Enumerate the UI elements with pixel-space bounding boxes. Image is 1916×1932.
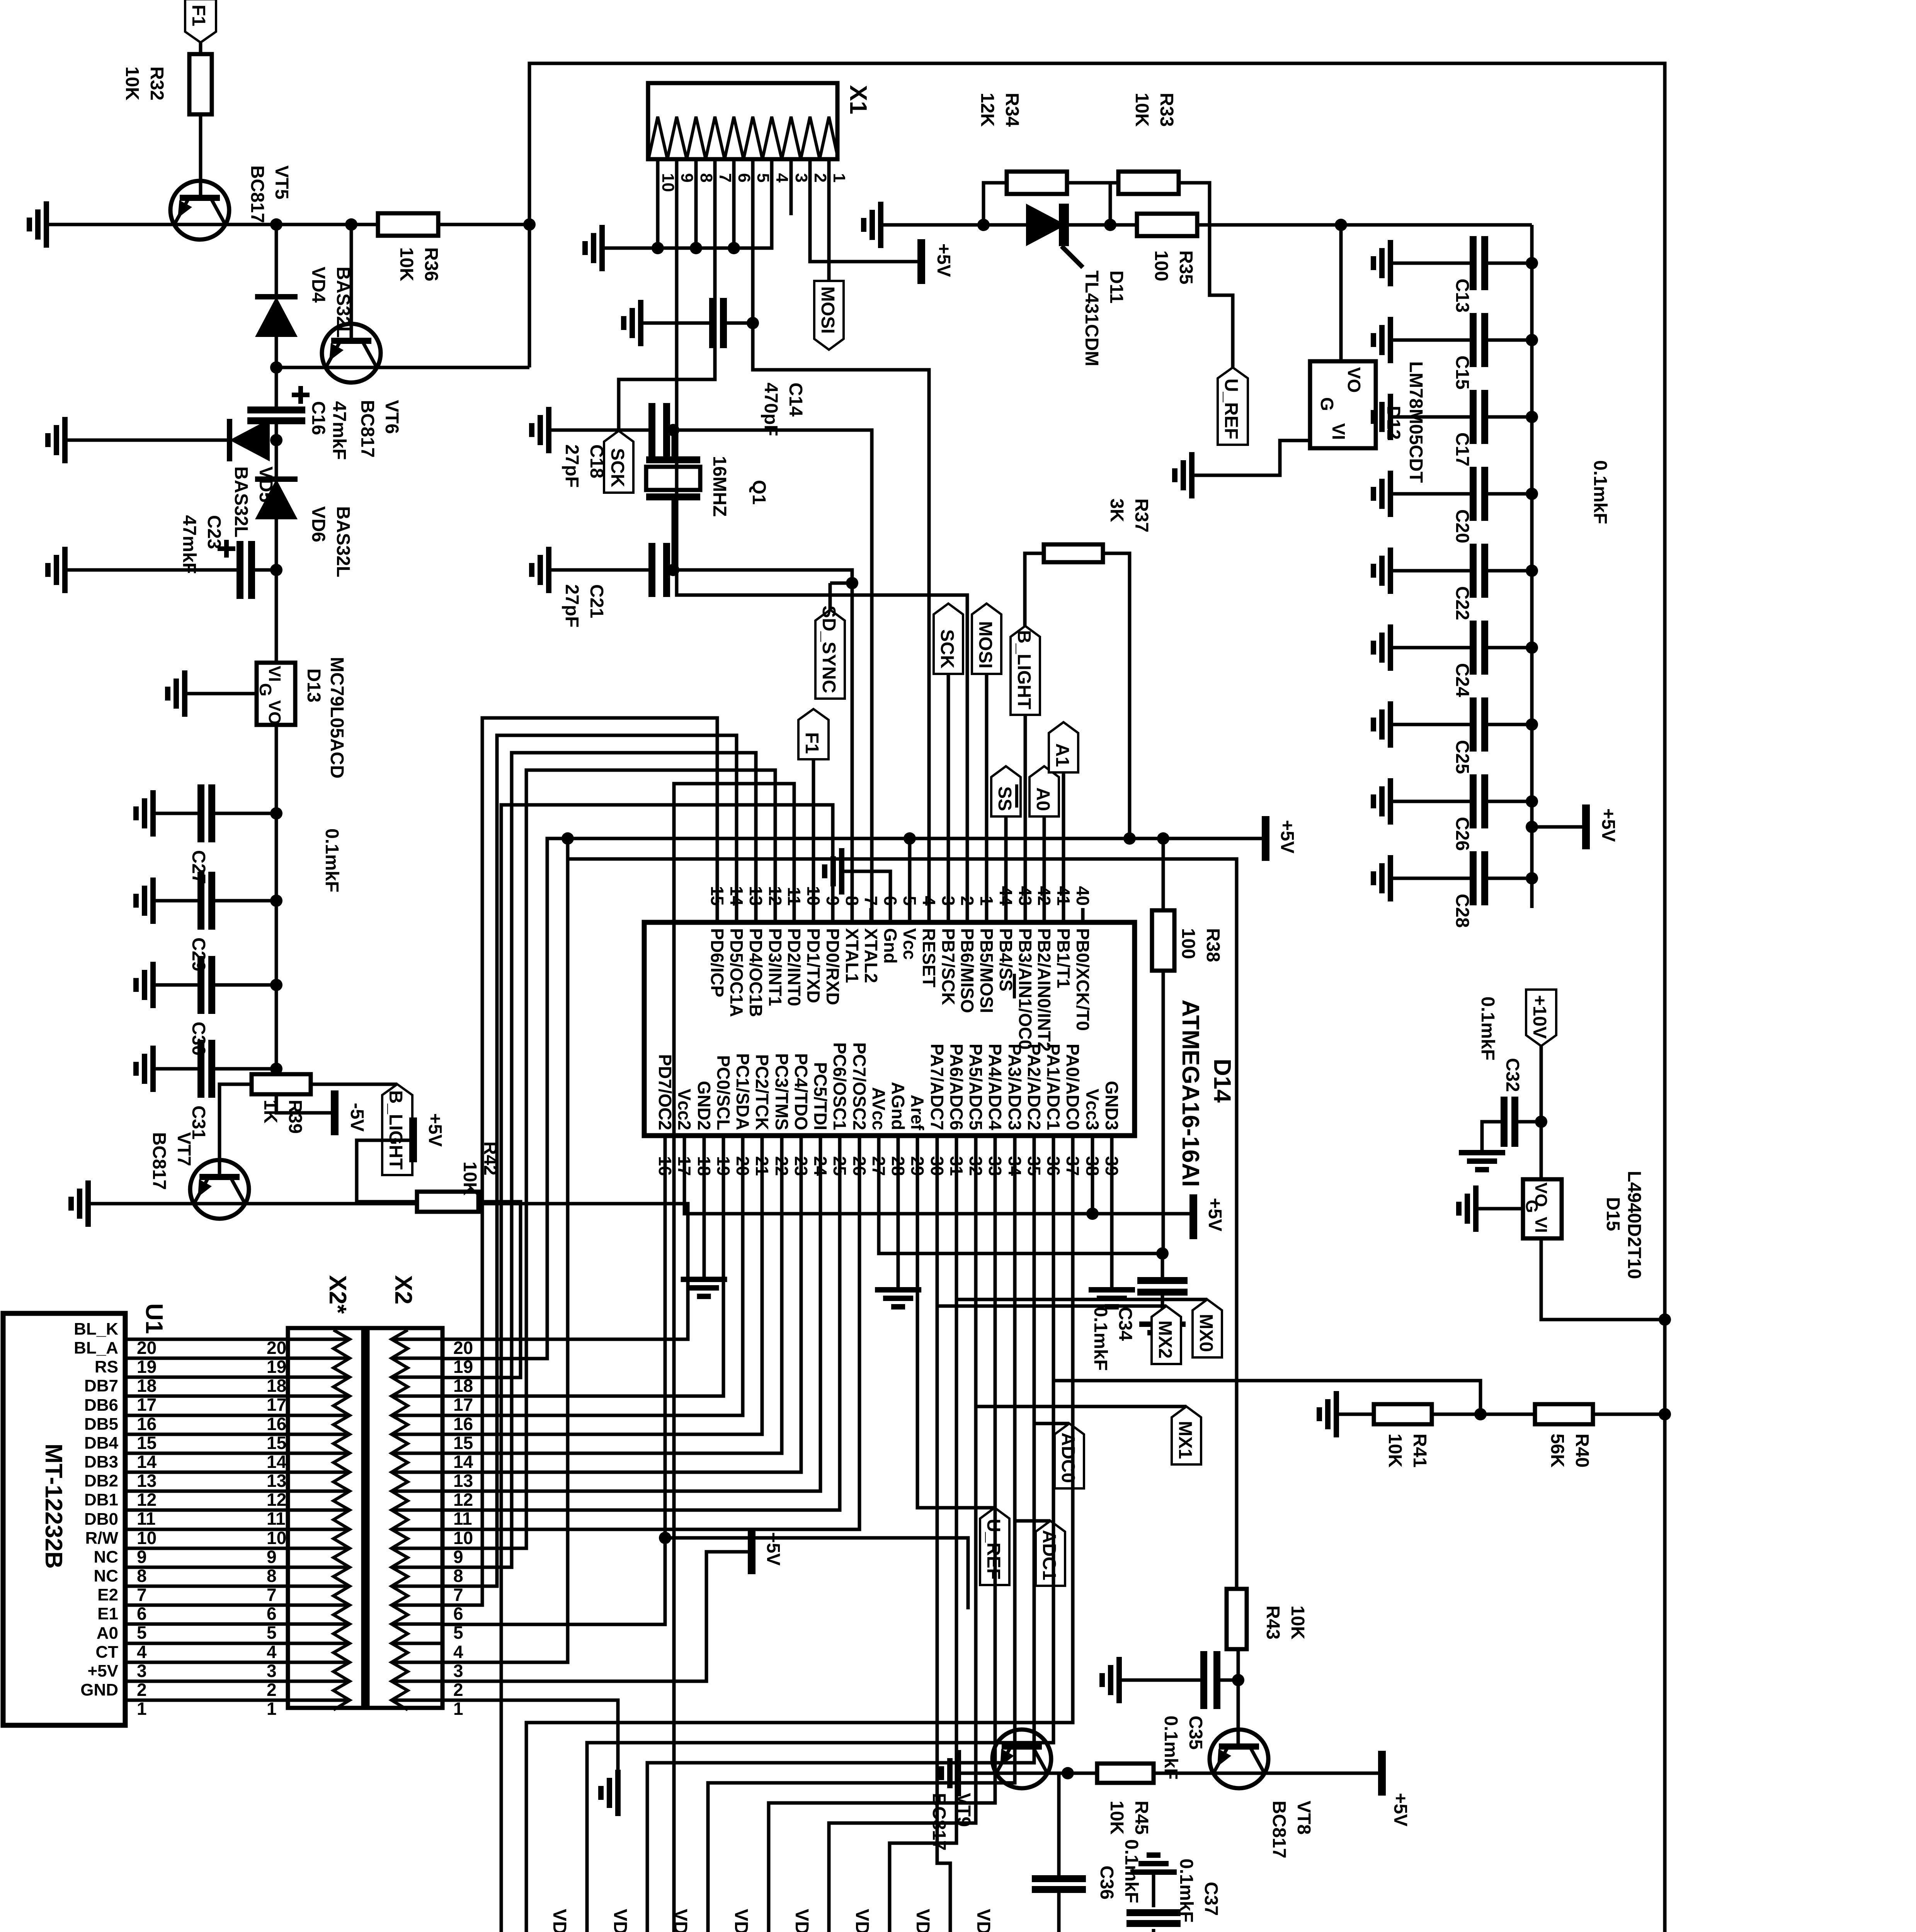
wire PA to 3596 bbox=[1916, 0, 1916, 0]
U1 pin 18 RS bbox=[95, 1357, 473, 1396]
wire AGnd bbox=[897, 1136, 900, 1290]
capacitor C26 bbox=[1452, 774, 1485, 851]
D14 pin 9 PD0/RXD bbox=[823, 896, 843, 1005]
svg-text:PC0/SCL: PC0/SCL bbox=[713, 1055, 733, 1130]
svg-text:C32: C32 bbox=[1502, 1058, 1523, 1092]
wire bbox=[1103, 553, 1130, 838]
wire PA7 diode row bbox=[937, 1155, 950, 1932]
ground bbox=[1319, 1391, 1336, 1437]
U1 pin 14 DB4 bbox=[84, 1434, 473, 1472]
IC U1 MT-12232B bbox=[3, 1303, 167, 1725]
svg-text:DB2: DB2 bbox=[84, 1471, 118, 1490]
wire bbox=[1179, 183, 1233, 367]
svg-text:GND: GND bbox=[80, 1680, 118, 1699]
net flag F1 bbox=[798, 709, 829, 922]
U1 pin 17 DB7 bbox=[84, 1376, 473, 1415]
wire PC7 to X2-10 bbox=[442, 1136, 859, 1529]
transistor VT6 bbox=[322, 324, 402, 457]
power +5V bbox=[752, 1529, 783, 1574]
node bbox=[270, 218, 357, 231]
svg-text:Vcc3: Vcc3 bbox=[1082, 1089, 1103, 1130]
X2 pin 4 bbox=[391, 1642, 442, 1645]
transistor VT9 bbox=[929, 1730, 1051, 1850]
svg-text:7: 7 bbox=[137, 1585, 147, 1605]
svg-text:19: 19 bbox=[137, 1357, 157, 1377]
svg-text:PA2/ADC2: PA2/ADC2 bbox=[1024, 1044, 1044, 1130]
svg-text:17: 17 bbox=[267, 1395, 286, 1415]
svg-text:4: 4 bbox=[137, 1642, 147, 1662]
transistor VT7 bbox=[149, 1132, 249, 1219]
node bbox=[1916, 0, 1916, 0]
D14 pin 33 PA4/ADC4 bbox=[985, 1044, 1005, 1176]
diode VD4 bbox=[255, 267, 353, 338]
svg-text:NC: NC bbox=[94, 1548, 118, 1566]
node bbox=[659, 1532, 671, 1544]
wire bbox=[1390, 723, 1473, 726]
svg-text:C25: C25 bbox=[1452, 740, 1472, 774]
wire bbox=[442, 1202, 521, 1378]
D14 pin 10 PD1/TXD bbox=[803, 886, 824, 1003]
X1 pin 1 bbox=[830, 173, 849, 182]
svg-text:DB1: DB1 bbox=[84, 1490, 118, 1509]
wire bbox=[211, 983, 276, 987]
X2 pin 7 bbox=[391, 1585, 442, 1588]
svg-text:GND3: GND3 bbox=[1102, 1081, 1122, 1130]
svg-text:7: 7 bbox=[861, 896, 881, 906]
svg-text:BC817: BC817 bbox=[247, 165, 267, 223]
node bbox=[1086, 1207, 1099, 1220]
ground bbox=[1102, 1657, 1119, 1703]
node bbox=[1916, 0, 1916, 0]
wire bbox=[1485, 877, 1532, 880]
svg-text:PA0/ADC0: PA0/ADC0 bbox=[1063, 1044, 1083, 1130]
crystal Q1 bbox=[646, 456, 769, 517]
wire bbox=[1485, 800, 1532, 803]
svg-text:L4940D2T10: L4940D2T10 bbox=[1624, 1171, 1644, 1279]
ground bbox=[601, 1770, 618, 1816]
wire reg line bbox=[881, 223, 1532, 227]
svg-text:PB5/MOSI: PB5/MOSI bbox=[977, 928, 997, 1013]
svg-text:VD4: VD4 bbox=[308, 267, 328, 303]
net flag F1 bbox=[185, 0, 216, 43]
svg-text:F1: F1 bbox=[188, 5, 209, 26]
svg-text:R34: R34 bbox=[1002, 93, 1022, 127]
node bbox=[1526, 565, 1538, 577]
capacitor C27 bbox=[188, 784, 212, 884]
diode VD5 bbox=[230, 419, 276, 537]
X2 pin 17 bbox=[391, 1395, 442, 1398]
wire ADC1 bbox=[1015, 1136, 1050, 1521]
wire X1 gnd rail bbox=[602, 159, 772, 248]
svg-text:BL_K: BL_K bbox=[74, 1320, 118, 1338]
svg-text:+5V: +5V bbox=[1598, 808, 1618, 842]
D14 pin 25 PC6/OSC1 bbox=[830, 1042, 850, 1176]
svg-text:BAS32L: BAS32L bbox=[333, 506, 353, 577]
diode VD10 bbox=[747, 1909, 812, 1932]
node bbox=[1062, 1767, 1074, 1779]
wire bbox=[1057, 1889, 1061, 1932]
svg-text:BC817: BC817 bbox=[357, 400, 378, 457]
svg-text:8: 8 bbox=[137, 1566, 147, 1586]
node bbox=[1526, 334, 1538, 346]
node bbox=[1123, 832, 1136, 845]
wire X2-1 gnd bbox=[442, 1700, 618, 1770]
wire bbox=[672, 430, 675, 460]
power +5V bbox=[1193, 1194, 1225, 1239]
svg-text:+5V: +5V bbox=[425, 1113, 445, 1147]
wire MISO bbox=[677, 350, 967, 922]
svg-text:TL431CDM: TL431CDM bbox=[1081, 270, 1102, 366]
ground bbox=[136, 962, 153, 1008]
svg-text:BC817: BC817 bbox=[929, 1793, 949, 1850]
node bbox=[747, 317, 759, 329]
wire PA to 2969 bbox=[1916, 0, 1916, 0]
svg-text:8: 8 bbox=[697, 173, 716, 182]
wire GND3 bbox=[1110, 1136, 1114, 1290]
wire PA to 3283 bbox=[1916, 0, 1916, 0]
D14 pin 39 GND3 bbox=[1102, 1081, 1122, 1176]
svg-text:PA6/ADC6: PA6/ADC6 bbox=[946, 1044, 967, 1130]
ground bbox=[136, 790, 153, 837]
svg-text:47mkF: 47mkF bbox=[179, 515, 199, 574]
wire bbox=[641, 321, 713, 325]
D14 pin 18 GND2 bbox=[694, 1081, 714, 1176]
svg-text:VO: VO bbox=[1344, 367, 1364, 393]
node bbox=[1335, 219, 1347, 231]
svg-text:12: 12 bbox=[267, 1490, 286, 1510]
svg-text:0.1mkF: 0.1mkF bbox=[1176, 1859, 1196, 1922]
svg-text:XTAL1: XTAL1 bbox=[842, 928, 862, 983]
X2 pin 1 bbox=[391, 1699, 442, 1702]
svg-text:SD_SYNC: SD_SYNC bbox=[818, 605, 839, 693]
svg-text:15: 15 bbox=[137, 1433, 157, 1453]
svg-text:G: G bbox=[1522, 1200, 1541, 1213]
resistor R33 bbox=[1118, 93, 1179, 194]
wire PC5 to X2-12 bbox=[442, 1136, 820, 1491]
capacitor C29 bbox=[188, 872, 212, 971]
svg-text:VO: VO bbox=[265, 700, 284, 725]
wire bbox=[1067, 181, 1110, 185]
svg-text:RESET: RESET bbox=[919, 928, 939, 987]
net flag B_LIGHT bbox=[1011, 626, 1040, 922]
wire D15 gnd bbox=[1476, 1207, 1523, 1211]
ground bbox=[1373, 317, 1390, 363]
svg-text:6: 6 bbox=[137, 1604, 147, 1624]
U1 pin 16 DB6 bbox=[84, 1396, 473, 1434]
wire bbox=[675, 159, 679, 350]
node bbox=[652, 242, 664, 254]
wire PA to 3439 bbox=[1916, 0, 1916, 0]
svg-text:10K: 10K bbox=[1132, 93, 1152, 127]
svg-text:MX2: MX2 bbox=[1155, 1320, 1175, 1359]
svg-text:C16: C16 bbox=[308, 401, 328, 435]
wire bbox=[1161, 1253, 1164, 1279]
svg-text:11: 11 bbox=[137, 1509, 156, 1529]
wire bbox=[275, 224, 278, 297]
svg-text:R37: R37 bbox=[1131, 498, 1152, 532]
svg-text:PC1/SDA: PC1/SDA bbox=[733, 1053, 753, 1130]
wire AVcc bbox=[879, 1136, 1162, 1253]
svg-text:PB7/SCK: PB7/SCK bbox=[938, 928, 958, 1005]
svg-text:20: 20 bbox=[137, 1338, 157, 1358]
wire PC6 to X2-11 bbox=[442, 1136, 840, 1510]
svg-text:DB5: DB5 bbox=[84, 1415, 118, 1434]
X1 pin 4 bbox=[773, 173, 791, 183]
svg-text:X1: X1 bbox=[845, 85, 871, 114]
wire C36 tap bbox=[1059, 1773, 1068, 1879]
wire PC2 to X2-15 bbox=[442, 1136, 762, 1434]
wire D13 gnd bbox=[185, 692, 257, 696]
ground bbox=[1139, 1324, 1186, 1341]
X2 pin 2 bbox=[391, 1680, 442, 1683]
X2 pin 9 bbox=[391, 1547, 442, 1550]
U1 pin 2 +5V bbox=[87, 1662, 463, 1700]
svg-text:G: G bbox=[1317, 397, 1337, 411]
svg-text:16MHZ: 16MHZ bbox=[709, 456, 730, 517]
node bbox=[690, 242, 702, 254]
wire bbox=[1482, 1122, 1504, 1153]
D14 pin 17 Vcc2 bbox=[674, 1089, 694, 1176]
power +5V bbox=[921, 239, 954, 284]
D14 pin 43 PB3/AIN1/OC0 bbox=[1015, 886, 1035, 1050]
svg-text:3K: 3K bbox=[1106, 498, 1127, 522]
svg-text:2: 2 bbox=[137, 1680, 147, 1700]
svg-text:PD7/OC2: PD7/OC2 bbox=[655, 1054, 675, 1130]
X2 pin 6 bbox=[391, 1604, 442, 1607]
X1 pin 9 bbox=[677, 173, 696, 182]
svg-text:VT8: VT8 bbox=[1293, 1801, 1314, 1835]
wire PC3 to X2-14 bbox=[442, 1136, 782, 1453]
svg-text:R36: R36 bbox=[421, 247, 441, 281]
wire bbox=[1390, 800, 1473, 803]
wire bbox=[751, 159, 755, 323]
svg-text:C21: C21 bbox=[586, 584, 607, 618]
node bbox=[1104, 219, 1116, 231]
svg-text:D14: D14 bbox=[1209, 1059, 1235, 1103]
svg-text:VT9: VT9 bbox=[953, 1793, 974, 1827]
wire bbox=[827, 159, 831, 281]
svg-text:14: 14 bbox=[267, 1452, 287, 1472]
U1 pin 13 DB3 bbox=[84, 1452, 473, 1491]
svg-text:Aref: Aref bbox=[907, 1095, 927, 1131]
regulator D13 bbox=[256, 657, 347, 779]
svg-text:6: 6 bbox=[267, 1604, 277, 1624]
connector X1 bbox=[648, 83, 871, 159]
wire MX1 bbox=[976, 1136, 1186, 1406]
svg-text:ADC0: ADC0 bbox=[1058, 1432, 1078, 1483]
svg-text:8: 8 bbox=[267, 1566, 277, 1586]
net flag A1 bbox=[1049, 722, 1078, 922]
svg-text:DB3: DB3 bbox=[84, 1452, 118, 1471]
wire PD to X2-6 bbox=[442, 718, 717, 1605]
svg-text:SS: SS bbox=[994, 786, 1015, 811]
svg-text:6: 6 bbox=[735, 173, 754, 182]
wire bbox=[1390, 338, 1473, 342]
D14 pin 2 PB6/MISO bbox=[957, 896, 977, 1013]
svg-text:4: 4 bbox=[453, 1642, 463, 1662]
net flag MOSI bbox=[814, 281, 844, 350]
svg-text:PB3/AIN1/OC0: PB3/AIN1/OC0 bbox=[1015, 928, 1035, 1049]
svg-text:D11: D11 bbox=[1106, 270, 1126, 303]
svg-text:0.1mkF: 0.1mkF bbox=[1590, 460, 1610, 524]
X1 pin 7 bbox=[716, 173, 735, 182]
svg-text:PC4/TDO: PC4/TDO bbox=[791, 1053, 811, 1130]
D14 pin 5 Vcc bbox=[900, 896, 920, 959]
node bbox=[1526, 821, 1538, 833]
wire bbox=[984, 183, 1007, 225]
svg-text:C22: C22 bbox=[1452, 586, 1472, 620]
svg-text:VD14: VD14 bbox=[549, 1909, 570, 1932]
svg-text:10K: 10K bbox=[122, 66, 142, 100]
ground bbox=[1089, 1290, 1135, 1307]
capacitor C23 bbox=[179, 515, 252, 599]
resistor R38 bbox=[1152, 910, 1223, 971]
capacitor C18 bbox=[562, 403, 667, 488]
wire PC0 to X2-17 bbox=[442, 1136, 723, 1396]
node bbox=[1526, 488, 1538, 500]
diode VD14 bbox=[505, 1909, 570, 1932]
wire PA2 diode row bbox=[647, 1155, 1034, 1932]
X1 pin 2 bbox=[811, 173, 830, 182]
U1 pin 11 DB1 bbox=[84, 1490, 472, 1529]
U1 pin 10 DB0 bbox=[84, 1510, 473, 1548]
wire bbox=[790, 159, 793, 215]
svg-text:16: 16 bbox=[137, 1414, 157, 1434]
svg-text:VD11: VD11 bbox=[731, 1909, 751, 1932]
ground bbox=[624, 300, 641, 346]
wire bbox=[1432, 1413, 1480, 1416]
svg-text:VD7: VD7 bbox=[973, 1909, 994, 1932]
svg-text:G: G bbox=[256, 683, 275, 696]
svg-text:VI: VI bbox=[1531, 1217, 1550, 1233]
wire bbox=[1162, 971, 1165, 1253]
ground bbox=[941, 1750, 958, 1796]
U1 pin 9 R/W bbox=[85, 1529, 463, 1567]
U1 pin 6 E2 bbox=[97, 1585, 463, 1624]
svg-text:F1: F1 bbox=[801, 732, 822, 754]
X2 pin 8 bbox=[391, 1566, 442, 1569]
ground bbox=[1373, 548, 1390, 594]
D14 pin 20 PC1/SDA bbox=[733, 1053, 753, 1176]
ground bbox=[681, 1279, 727, 1296]
capacitor C21 bbox=[562, 543, 667, 628]
wire bbox=[1336, 1413, 1374, 1416]
wire bbox=[153, 899, 201, 903]
svg-text:C36: C36 bbox=[1096, 1866, 1117, 1900]
U1 pin 12 DB2 bbox=[84, 1471, 473, 1510]
capacitor C13 bbox=[1452, 236, 1485, 313]
ground bbox=[1130, 1855, 1177, 1872]
svg-text:VD8: VD8 bbox=[912, 1909, 933, 1932]
X2 pin 10 bbox=[391, 1528, 442, 1531]
wire -5V rail bbox=[276, 725, 332, 1113]
svg-text:C37: C37 bbox=[1201, 1882, 1221, 1916]
capacitor C20 bbox=[1452, 467, 1485, 543]
diode VD7 bbox=[929, 1909, 994, 1932]
wire bbox=[1485, 415, 1532, 419]
wire bbox=[1091, 1136, 1094, 1214]
D14 pin 8 XTAL1 bbox=[842, 896, 862, 983]
svg-text:D13: D13 bbox=[303, 668, 324, 702]
D14 pin 16 PD7/OC2 bbox=[655, 1054, 675, 1176]
capacitor C16 bbox=[247, 386, 349, 460]
D14 pin 21 PC2/TCK bbox=[752, 1054, 772, 1176]
wire bbox=[275, 367, 278, 410]
capacitor C32 bbox=[1477, 997, 1523, 1147]
svg-text:17: 17 bbox=[137, 1395, 157, 1415]
svg-text:7: 7 bbox=[716, 173, 735, 182]
svg-text:1K: 1K bbox=[260, 1100, 281, 1124]
svg-text:18: 18 bbox=[453, 1376, 473, 1396]
wire bbox=[549, 568, 651, 572]
wire U_REF bbox=[917, 1136, 995, 1508]
wire bbox=[357, 1140, 417, 1202]
svg-text:4: 4 bbox=[919, 896, 939, 906]
connector X2* bbox=[288, 1275, 363, 1708]
resistor R35 bbox=[1137, 214, 1197, 284]
capacitor C14 bbox=[713, 298, 806, 436]
capacitor C36 bbox=[1032, 1839, 1142, 1903]
node bbox=[270, 564, 282, 576]
wire bbox=[225, 223, 381, 226]
wire bbox=[211, 812, 276, 815]
svg-text:-5V: -5V bbox=[347, 1103, 367, 1132]
svg-text:27pF: 27pF bbox=[562, 584, 582, 628]
wire bbox=[1217, 1679, 1238, 1682]
wire bbox=[153, 812, 201, 815]
net flag U_REF bbox=[980, 1508, 1009, 1585]
wire VO bbox=[1540, 1046, 1543, 1179]
net flag SD_SYNC bbox=[815, 577, 858, 699]
node bbox=[1916, 0, 1916, 0]
wire bbox=[732, 159, 736, 248]
svg-text:+5V: +5V bbox=[1390, 1793, 1411, 1827]
power -5V bbox=[335, 1090, 367, 1135]
svg-text:C24: C24 bbox=[1452, 663, 1472, 697]
wire bbox=[1339, 225, 1343, 361]
svg-text:2: 2 bbox=[267, 1680, 277, 1700]
diode VD13 bbox=[566, 1909, 630, 1932]
capacitor C30 bbox=[188, 956, 212, 1056]
svg-text:VI: VI bbox=[265, 666, 284, 682]
wire bbox=[1485, 723, 1532, 726]
svg-text:E1: E1 bbox=[97, 1604, 118, 1623]
svg-text:PA3/ADC3: PA3/ADC3 bbox=[1005, 1044, 1025, 1130]
net flag SCK bbox=[604, 431, 633, 493]
svg-text:C26: C26 bbox=[1452, 817, 1472, 851]
wire PA0 diode row bbox=[526, 1155, 1073, 1932]
svg-text:PC7/OSC2: PC7/OSC2 bbox=[849, 1042, 870, 1130]
svg-text:10: 10 bbox=[659, 173, 677, 192]
D14 pin 6 Gnd bbox=[880, 896, 900, 964]
wire bbox=[211, 1067, 276, 1071]
ground bbox=[1373, 471, 1390, 517]
wire X2-2 +5V bbox=[442, 1552, 749, 1681]
net flag SCK bbox=[934, 604, 963, 922]
svg-text:PD2/INT0: PD2/INT0 bbox=[784, 928, 804, 1006]
wire PA4 diode row bbox=[769, 1155, 995, 1932]
svg-text:3: 3 bbox=[137, 1661, 147, 1681]
wire bbox=[1110, 181, 1118, 185]
svg-text:PD5/OC1A: PD5/OC1A bbox=[727, 928, 747, 1017]
D14 pin 37 PA0/ADC0 bbox=[1063, 1044, 1083, 1176]
wire bbox=[667, 429, 673, 432]
U1 pin 7 NC bbox=[94, 1566, 463, 1605]
svg-text:10: 10 bbox=[267, 1528, 286, 1548]
wire R44 feed bbox=[665, 1538, 968, 1609]
svg-text:MC79L05ACD: MC79L05ACD bbox=[327, 657, 347, 779]
svg-text:18: 18 bbox=[267, 1376, 286, 1396]
